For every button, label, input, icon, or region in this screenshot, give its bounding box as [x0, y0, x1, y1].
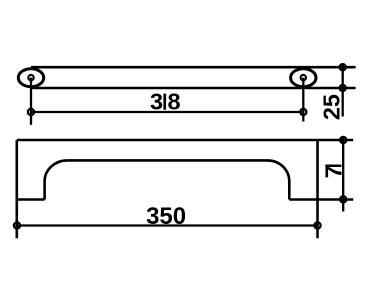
dimension dot top (25)	[340, 64, 346, 70]
top view: top edge line (tangent, extends right as extension line for 25)	[31, 66, 356, 69]
dimension dot top (71)	[340, 137, 346, 143]
front view: top edge (extends right as extension line for 71)	[17, 139, 353, 142]
front view: left outer edge (extends down as extension line for 350)	[15, 140, 18, 238]
dimension dot bottom (25)	[340, 85, 346, 91]
dimension line 25 (vertical)	[342, 64, 344, 117]
dimension text 71 (rotated)	[320, 165, 346, 179]
dimension line 350	[17, 224, 318, 226]
front view: inner profile of handle opening	[45, 160, 290, 199]
dimension dot right (318)	[300, 109, 306, 115]
right mounting hole	[301, 75, 306, 80]
dimension line 71 (vertical)	[342, 137, 344, 212]
dimension line 318	[31, 111, 303, 113]
dimension dot right (350)	[314, 222, 320, 228]
top view: right end cap ellipse	[291, 69, 316, 87]
front view: right outer edge (extends down as extension line for 350)	[316, 140, 319, 238]
top view: bottom edge line (tangent, extends right as extension line for 25)	[31, 87, 356, 90]
svg-text:7: 7	[320, 165, 346, 178]
svg-text:8: 8	[167, 89, 180, 115]
dimension dot left (318)	[28, 109, 34, 115]
dimension text 318	[150, 89, 181, 115]
extension line from right hole center	[302, 78, 304, 122]
svg-text:350: 350	[146, 203, 186, 230]
front view: left foot bottom	[17, 198, 45, 201]
dimension dot left (350)	[14, 222, 20, 228]
dimension dot bottom (71)	[340, 196, 346, 202]
left mounting hole	[28, 75, 33, 80]
top view: left end cap ellipse	[18, 69, 43, 87]
svg-text:3: 3	[150, 89, 163, 115]
svg-text:25: 25	[319, 94, 345, 120]
extension line from left hole center	[30, 78, 32, 125]
front view: right foot bottom (extends right as extension line for 71)	[289, 198, 353, 201]
